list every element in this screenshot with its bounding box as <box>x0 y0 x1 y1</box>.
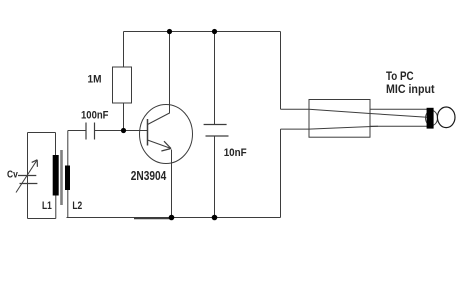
svg-text:To PC: To PC <box>386 69 414 83</box>
svg-text:1M: 1M <box>88 73 102 85</box>
svg-text:100nF: 100nF <box>81 110 109 122</box>
svg-text:L1: L1 <box>42 200 52 212</box>
svg-text:2N3904: 2N3904 <box>131 168 167 183</box>
svg-text:10nF: 10nF <box>224 147 247 159</box>
svg-text:L2: L2 <box>72 200 82 212</box>
svg-text:MIC input: MIC input <box>386 82 435 96</box>
svg-text:Cv: Cv <box>7 169 18 181</box>
